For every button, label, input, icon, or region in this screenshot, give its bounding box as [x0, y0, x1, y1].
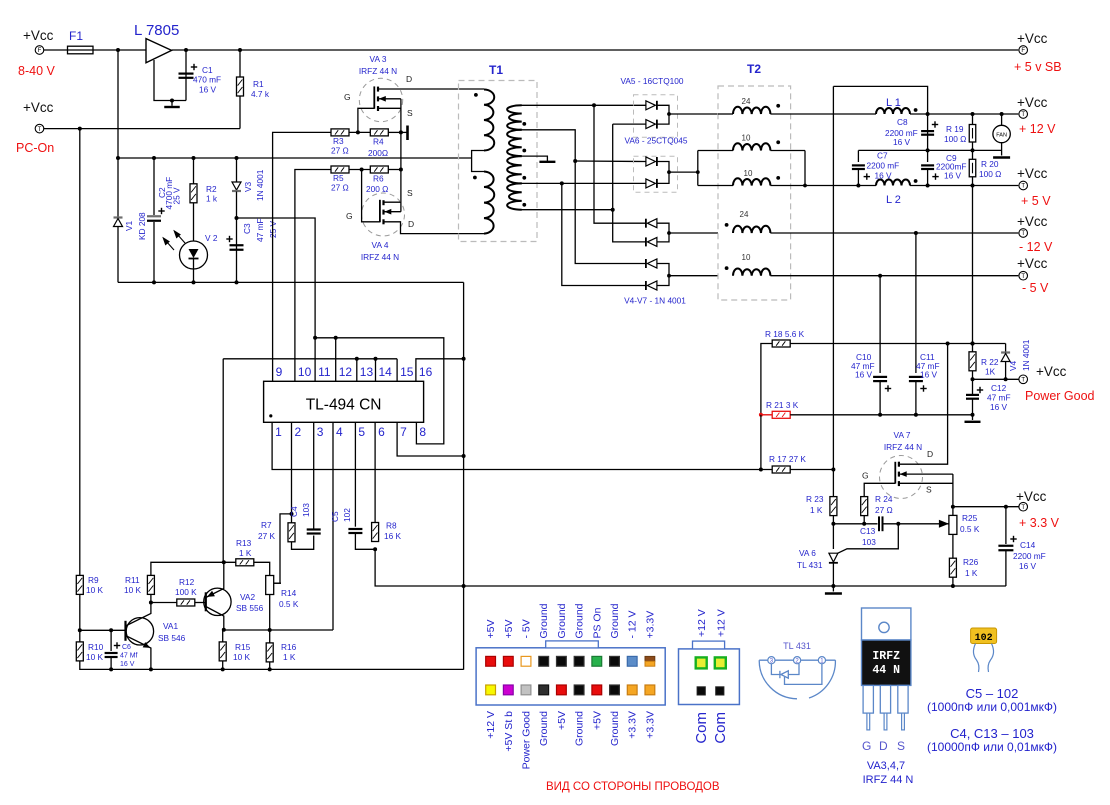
svg-text:15: 15	[400, 365, 414, 379]
winding T2-5 10t	[733, 268, 770, 275]
svg-text:16 V: 16 V	[855, 370, 873, 380]
resistor R26 1K	[949, 558, 956, 577]
wire pins 11-12-8 tie line	[315, 338, 444, 444]
wire pin14 stub	[375, 359, 377, 382]
node rail-R2	[192, 156, 196, 160]
svg-text:+Vcc: +Vcc	[1017, 31, 1048, 46]
svg-text:F: F	[38, 48, 42, 54]
svg-text:1 K: 1 K	[810, 505, 823, 515]
pin ATX bottom 3 Power Good	[521, 685, 531, 695]
wire Power Good line	[973, 378, 1019, 380]
svg-text:+ 12 V: + 12 V	[1019, 122, 1056, 136]
svg-text:16: 16	[419, 365, 433, 379]
wire base line	[80, 629, 126, 631]
svg-text:10 K: 10 K	[86, 585, 104, 595]
svg-text:Ground: Ground	[609, 711, 621, 746]
svg-text:G: G	[862, 471, 869, 481]
pin ATX bottom 6 Ground	[574, 685, 584, 695]
node rail-V3	[235, 156, 239, 160]
winding T1 secondary	[507, 105, 522, 130]
svg-text:47 mF: 47 mF	[255, 218, 265, 242]
wire top rail of aux circuit	[118, 157, 472, 159]
svg-text:C3: C3	[242, 223, 252, 234]
wire tap4 riser to VA5 D2 and -12V D2	[613, 124, 646, 242]
svg-text:L 2: L 2	[886, 194, 901, 206]
diode VA5a	[646, 101, 657, 110]
wire pin15 stub	[396, 359, 398, 382]
wire regulator ground leg	[154, 60, 186, 101]
svg-text:R10: R10	[88, 642, 104, 652]
svg-text:+Vcc: +Vcc	[1017, 256, 1048, 271]
svg-text:R 24: R 24	[875, 494, 893, 504]
svg-text:(10000пФ или 0,01мкФ): (10000пФ или 0,01мкФ)	[927, 740, 1057, 754]
svg-text:S: S	[897, 739, 905, 753]
diode V1 KD208	[117, 158, 119, 217]
wire R18/R21 left riser to R17	[760, 415, 762, 470]
svg-text:24: 24	[742, 97, 751, 106]
fan	[1001, 114, 1003, 125]
node R24 bottom	[862, 522, 866, 526]
connector 4-pin 12V	[679, 649, 740, 705]
wire V3 node to pin11 riser	[237, 218, 316, 338]
wire input to fuse	[43, 49, 67, 51]
capacitor C6 47Mf	[110, 630, 112, 651]
svg-text:TL-494 CN: TL-494 CN	[306, 397, 382, 414]
wire feedback riser	[222, 359, 224, 563]
svg-text:103: 103	[301, 503, 311, 517]
svg-text:102: 102	[975, 633, 993, 644]
svg-text:2200 mF: 2200 mF	[867, 161, 900, 171]
svg-text:T: T	[1021, 378, 1025, 384]
node junction V1 branch	[116, 48, 120, 52]
svg-text:+12 V: +12 V	[715, 609, 727, 637]
resistor R12 100K	[151, 602, 177, 604]
svg-text:10 K: 10 K	[233, 652, 251, 662]
resistor R16 1K	[266, 643, 273, 662]
svg-text:0.5 K: 0.5 K	[960, 524, 980, 534]
svg-text:IRFZ 44 N: IRFZ 44 N	[359, 66, 397, 76]
svg-text:+5V: +5V	[591, 711, 603, 730]
resistor R4 200	[349, 131, 370, 133]
svg-text:+ 3.3 V: + 3.3 V	[1019, 516, 1060, 530]
resistor R22 1K	[972, 186, 974, 352]
node TL431 ref junction	[896, 522, 900, 526]
capacitor C13 103	[878, 516, 880, 531]
wire VA6 cathode join	[657, 162, 669, 184]
node T1 secondary phase dots	[522, 122, 526, 126]
pin ATX top 3 - 5V	[521, 656, 531, 666]
wire -5V anode join	[657, 264, 669, 286]
svg-text:T: T	[1021, 505, 1025, 511]
svg-text:8-40 V: 8-40 V	[18, 64, 55, 78]
svg-text:V3: V3	[243, 181, 253, 192]
svg-text:C5: C5	[330, 511, 340, 522]
svg-text:16 V: 16 V	[920, 370, 938, 380]
svg-text:T: T	[1021, 274, 1025, 280]
svg-text:Ground: Ground	[574, 711, 586, 746]
IC TL-494 CN	[264, 381, 424, 422]
svg-text:47 mF: 47 mF	[987, 393, 1011, 403]
svg-text:Com: Com	[693, 712, 710, 744]
svg-text:T: T	[38, 127, 42, 133]
svg-text:16 V: 16 V	[199, 85, 217, 95]
node R17 right junction	[831, 468, 835, 472]
capacitor C2 4700mF	[153, 158, 155, 215]
wire sec tap2 to ground	[521, 156, 547, 162]
svg-text:1 K: 1 K	[965, 568, 978, 578]
diode VA6b	[646, 179, 657, 188]
svg-text:8: 8	[419, 425, 426, 439]
svg-text:R 23: R 23	[806, 494, 824, 504]
svg-text:(1000пФ или 0,001мкФ): (1000пФ или 0,001мкФ)	[927, 700, 1057, 714]
svg-text:VA2: VA2	[240, 592, 255, 602]
svg-text:470 mF: 470 mF	[193, 75, 221, 85]
capacitor C14 2200mF	[1005, 507, 1007, 544]
wire tap3 to -5V D2	[562, 183, 646, 285]
svg-text:R 17 27 K: R 17 27 K	[769, 454, 806, 464]
svg-text:R8: R8	[386, 521, 397, 531]
svg-text:7: 7	[400, 425, 407, 439]
svg-text:16 V: 16 V	[120, 661, 135, 668]
pin ATX top 8 Ground	[610, 656, 620, 666]
svg-text:F: F	[1021, 48, 1025, 54]
wire pin2 stub	[291, 422, 293, 514]
wire R14 wiper riser	[273, 514, 291, 583]
svg-text:R11: R11	[125, 575, 140, 585]
svg-text:V 2: V 2	[205, 233, 218, 243]
terminal bar VA3 source	[401, 131, 407, 133]
diode V3 1N4001	[236, 158, 238, 182]
svg-text:V4-V7 - 1N 4001: V4-V7 - 1N 4001	[624, 296, 686, 306]
svg-text:R 19: R 19	[946, 124, 964, 134]
svg-text:VA 6: VA 6	[799, 548, 816, 558]
svg-text:14: 14	[379, 365, 393, 379]
pin ATX top 6 Ground	[574, 656, 584, 666]
node R1 top	[238, 48, 242, 52]
pin ATX top 2 +5V	[503, 656, 513, 666]
wire -5V line	[770, 275, 1018, 277]
svg-text:12: 12	[339, 365, 353, 379]
pin 4pin top 1 +12V	[696, 657, 707, 668]
svg-text:PC-On: PC-On	[16, 141, 54, 155]
svg-text:1 K: 1 K	[239, 548, 252, 558]
svg-text:16 V: 16 V	[1019, 561, 1037, 571]
svg-text:TL 431: TL 431	[783, 641, 811, 651]
svg-text:C8: C8	[897, 117, 908, 127]
svg-text:10 K: 10 K	[124, 585, 142, 595]
resistor R23 1K	[830, 497, 837, 516]
svg-text:VA 3: VA 3	[370, 54, 387, 64]
pin ATX bottom 9 +3.3V	[627, 685, 637, 695]
svg-text:VA1: VA1	[163, 621, 178, 631]
resistor R5 27	[331, 166, 349, 173]
wire left column	[79, 129, 81, 576]
svg-text:16 V: 16 V	[893, 137, 911, 147]
svg-text:5: 5	[358, 425, 365, 439]
svg-text:+5V St b: +5V St b	[503, 711, 515, 752]
svg-text:47 Mf: 47 Mf	[120, 653, 138, 660]
svg-text:+ 5 V: + 5 V	[1021, 194, 1051, 208]
svg-text:C1: C1	[202, 65, 213, 75]
svg-text:C5 – 102: C5 – 102	[966, 686, 1019, 701]
svg-text:R 21 3 K: R 21 3 K	[766, 400, 799, 410]
svg-text:+5V: +5V	[485, 620, 497, 639]
pin ATX top 7 PS On	[592, 656, 602, 666]
wire -12V line	[770, 232, 1018, 234]
wire sec tap4	[521, 209, 613, 211]
regulator VA6 TL431	[829, 553, 838, 562]
svg-text:R7: R7	[261, 520, 272, 530]
svg-text:T1: T1	[489, 63, 503, 77]
ground R21 line	[972, 415, 974, 420]
svg-text:10: 10	[742, 253, 751, 262]
transformer T1 box	[459, 81, 538, 242]
wire VA7 body arrow stub	[899, 473, 953, 475]
svg-text:C4, C13 – 103: C4, C13 – 103	[950, 726, 1034, 741]
winding T2-2 10t	[697, 151, 699, 186]
svg-text:R1: R1	[253, 79, 264, 89]
svg-text:PS On: PS On	[591, 607, 603, 638]
svg-text:T2: T2	[747, 62, 761, 76]
svg-text:IRFZ 44 N: IRFZ 44 N	[361, 252, 399, 262]
svg-text:10 K: 10 K	[86, 652, 104, 662]
pin ATX bottom 5 +5V	[557, 685, 567, 695]
svg-text:+Vcc: +Vcc	[1036, 364, 1067, 379]
wire sec tap0 to VA5 D1	[521, 104, 646, 106]
svg-text:100 Ω: 100 Ω	[979, 169, 1001, 179]
svg-text:+5V: +5V	[556, 711, 568, 730]
capacitor C11 47mF	[915, 233, 917, 373]
capacitor C7 2200mF	[857, 150, 859, 162]
svg-text:102: 102	[342, 508, 352, 522]
svg-text:R 18 5.6 K: R 18 5.6 K	[765, 329, 805, 339]
resistor R20 100	[972, 150, 974, 159]
wire -12V anode join	[657, 223, 669, 242]
node T1 primary phase dots	[474, 93, 478, 97]
wire tap1 node to VA6 D1	[575, 160, 646, 163]
svg-text:+Vcc: +Vcc	[23, 100, 54, 115]
svg-text:D: D	[879, 739, 888, 753]
resistor R11 10K	[150, 594, 152, 602]
svg-text:S: S	[407, 108, 413, 118]
svg-text:- 5V: - 5V	[521, 619, 533, 638]
wire tap0 riser to -12V diode	[594, 105, 646, 223]
capacitor C9 2200mF	[927, 150, 929, 162]
wire sec tap1	[521, 130, 575, 161]
node C8 bottom	[926, 148, 930, 152]
svg-text:1N 4001: 1N 4001	[255, 169, 265, 201]
potentiometer R25 0.5K	[949, 515, 957, 534]
svg-text:KD 208: KD 208	[137, 212, 147, 240]
svg-text:R25: R25	[962, 513, 978, 523]
node R23 bottom	[831, 522, 835, 526]
pin ATX top 4 Ground	[539, 656, 549, 666]
svg-text:D: D	[927, 449, 933, 459]
node tap4 junction	[611, 208, 615, 212]
svg-text:0.5 K: 0.5 K	[279, 599, 299, 609]
wire pin16 stub	[416, 359, 464, 382]
wire pin4 riser	[332, 422, 334, 630]
svg-text:25 V: 25 V	[172, 187, 182, 205]
svg-text:+Vcc: +Vcc	[23, 28, 54, 43]
capacitor C12 47mF	[972, 379, 974, 394]
wire sec tap3 to VA6 D2	[521, 182, 646, 184]
capacitor C10 47mF	[879, 276, 881, 373]
svg-text:Ground: Ground	[538, 603, 550, 638]
svg-text:VA 7: VA 7	[894, 430, 911, 440]
svg-text:R16: R16	[281, 642, 297, 652]
winding T2-3 10t	[698, 185, 733, 187]
wire R8 to ground rail	[375, 549, 1006, 586]
svg-text:+3.3V: +3.3V	[627, 711, 639, 739]
svg-text:+12 V: +12 V	[696, 609, 708, 637]
svg-text:T: T	[1021, 184, 1025, 190]
wire +12V feed bridge	[833, 86, 927, 114]
resistor R8 16K	[372, 523, 379, 542]
resistor R6 200	[349, 169, 370, 171]
wire T2-1 to L1	[770, 113, 876, 115]
wire error line	[833, 523, 877, 525]
wire pin9 riser to R3	[273, 132, 331, 381]
svg-text:1: 1	[275, 425, 282, 439]
svg-text:R6: R6	[373, 174, 384, 184]
transistor VA2 SB556	[204, 588, 231, 615]
pin 4pin top 2 +12V	[715, 657, 726, 668]
wire pin6 stub to R8	[374, 422, 376, 522]
wire VA7 source	[899, 482, 953, 484]
transformer T2 box	[718, 86, 791, 300]
svg-text:13: 13	[360, 365, 374, 379]
ground fan	[1001, 143, 1003, 156]
svg-text:R13: R13	[236, 538, 252, 548]
svg-text:R 22: R 22	[981, 357, 999, 367]
wire VA7 gate to R24	[864, 483, 895, 496]
svg-text:SB 546: SB 546	[158, 633, 186, 643]
potentiometer R14 0.5K	[266, 576, 274, 595]
pin ATX top 10 +3.3V	[645, 656, 655, 661]
svg-text:R9: R9	[88, 575, 99, 585]
wire fuse to regulator	[93, 49, 146, 51]
capacitor C3 47mF	[230, 245, 244, 250]
svg-text:100 K: 100 K	[175, 587, 197, 597]
svg-text:1K: 1K	[985, 367, 996, 377]
pin ATX bottom 10 +3.3V	[645, 685, 655, 695]
svg-text:+3.3V: +3.3V	[644, 611, 656, 639]
winding T1 primary	[484, 90, 494, 151]
svg-text:44 N: 44 N	[872, 664, 900, 677]
node R4-source junction	[399, 130, 403, 134]
wire VA7 drain	[899, 344, 948, 465]
wire +3.3V line	[953, 506, 1019, 508]
svg-text:11: 11	[318, 365, 331, 379]
node R5-gate junction	[360, 168, 364, 172]
wire aux circuit bottom rail	[118, 281, 464, 283]
node VA2 emitter junction	[222, 560, 226, 564]
svg-text:10: 10	[744, 169, 753, 178]
svg-text:6: 6	[378, 425, 385, 439]
svg-text:G: G	[344, 92, 351, 102]
wire pin12 stub	[335, 338, 337, 382]
svg-text:9: 9	[276, 365, 283, 379]
svg-text:+Vcc: +Vcc	[1017, 214, 1048, 229]
svg-text:103: 103	[862, 537, 876, 547]
pin ATX top 5 Ground	[557, 656, 567, 666]
diode V4 1N4001	[1005, 344, 1007, 353]
svg-text:16 V: 16 V	[944, 171, 962, 181]
node R18 dots	[946, 342, 950, 346]
svg-text:R12: R12	[179, 577, 195, 587]
pin 4pin bottom 2 Com	[716, 687, 724, 695]
svg-text:4: 4	[336, 425, 343, 439]
svg-text:C4: C4	[289, 506, 299, 517]
wire tap1 to -5V D1	[575, 161, 646, 264]
svg-text:+Vcc: +Vcc	[1017, 166, 1048, 181]
svg-text:- 12 V: - 12 V	[627, 610, 639, 638]
svg-text:- 5 V: - 5 V	[1022, 281, 1049, 295]
capacitor C8 2200mF	[927, 114, 929, 150]
resistor R13 1K	[236, 559, 254, 566]
svg-text:FAN: FAN	[996, 133, 1007, 139]
ground regulator	[170, 99, 174, 103]
svg-text:- 12 V: - 12 V	[1019, 240, 1053, 254]
wire +5V rail to C7	[805, 185, 876, 187]
svg-text:200 Ω: 200 Ω	[366, 184, 388, 194]
wire collector line to pin4	[224, 629, 333, 631]
svg-text:Power Good: Power Good	[1025, 389, 1095, 403]
svg-text:24: 24	[740, 210, 749, 219]
svg-text:+Vcc: +Vcc	[1016, 489, 1047, 504]
svg-text:1 k: 1 k	[206, 194, 218, 204]
resistor R3 27	[331, 129, 349, 136]
svg-text:R26: R26	[963, 557, 979, 567]
resistor R24 27	[861, 497, 868, 516]
node R11 bottom collector junction	[149, 601, 153, 605]
svg-text:Ground: Ground	[538, 711, 550, 746]
wire pin1 to R17 rail	[272, 422, 772, 469]
svg-text:16 K: 16 K	[384, 531, 402, 541]
svg-text:27 Ω: 27 Ω	[331, 146, 349, 156]
wire VA3/VA4 source vertical	[400, 99, 402, 212]
node R8 bottom	[373, 547, 377, 551]
capacitor ceramic 102 drawing	[971, 628, 997, 644]
resistor R2 1k	[193, 158, 195, 184]
capacitor C1	[185, 50, 187, 101]
svg-text:27 Ω: 27 Ω	[875, 505, 893, 515]
svg-text:C6: C6	[122, 644, 131, 651]
svg-text:SB 556: SB 556	[236, 603, 264, 613]
diode VA5b	[646, 120, 657, 129]
svg-text:TL 431: TL 431	[797, 560, 823, 570]
svg-text:VA6 - 25CTQ045: VA6 - 25CTQ045	[624, 136, 687, 146]
svg-text:+ 5 v SB: + 5 v SB	[1014, 60, 1062, 74]
pin ATX bottom 4 Ground	[539, 685, 549, 695]
svg-text:Com: Com	[712, 712, 729, 744]
svg-text:VA5 - 16CTQ100: VA5 - 16CTQ100	[620, 76, 683, 86]
svg-text:16 V: 16 V	[990, 402, 1008, 412]
svg-text:R14: R14	[281, 588, 297, 598]
svg-text:10: 10	[298, 365, 312, 379]
wire pin11 stub	[314, 338, 316, 382]
svg-text:1N 4001: 1N 4001	[1021, 339, 1031, 371]
svg-text:2200 mF: 2200 mF	[1013, 551, 1046, 561]
svg-text:F1: F1	[69, 29, 83, 43]
node junction left column	[78, 127, 82, 131]
node rail-C2	[152, 156, 156, 160]
svg-text:VA 4: VA 4	[372, 240, 389, 250]
wire PC-On line	[43, 128, 240, 130]
transistor VA1 SB546	[126, 618, 153, 645]
node V3-C3 junction	[235, 216, 239, 220]
